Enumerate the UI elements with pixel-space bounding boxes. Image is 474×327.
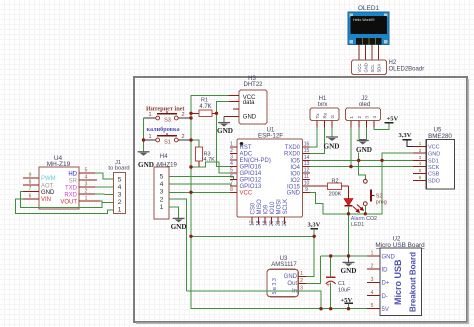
svg-text:GND: GND	[217, 127, 233, 135]
svg-text:RST: RST	[240, 145, 252, 151]
junction VCC rail / 3.3V rail corner	[189, 235, 192, 238]
component H3 DHT22	[224, 76, 267, 124]
svg-text:1: 1	[118, 206, 122, 213]
svg-text:H4: H4	[160, 154, 168, 160]
svg-text:1: 1	[148, 112, 151, 118]
svg-text:3,3V: 3,3V	[399, 132, 412, 139]
svg-text:Micro USB: Micro USB	[393, 259, 403, 305]
svg-text:+5V: +5V	[387, 116, 399, 123]
svg-text:8: 8	[230, 187, 233, 193]
ground under J2	[356, 140, 372, 161]
svg-text:2: 2	[230, 148, 233, 154]
svg-text:18: 18	[256, 220, 262, 226]
wire ESP GND pin9 staircase to LED net	[310, 192, 349, 214]
svg-text:SDO: SDO	[428, 179, 441, 185]
svg-text:1: 1	[148, 134, 151, 140]
junction J2 gnd stem / IO5 row / S2 hook	[357, 159, 360, 162]
svg-text:C1: C1	[338, 281, 345, 287]
wires U4 to J1	[15, 173, 113, 214]
svg-text:19: 19	[262, 220, 268, 226]
regulator U3 AMS1117	[267, 256, 306, 297]
svg-text:7: 7	[29, 186, 32, 192]
wire H1.Rx to ESP RXD0	[310, 128, 325, 154]
svg-text:SDA: SDA	[376, 64, 381, 73]
board border frame	[134, 77, 468, 323]
svg-text:2: 2	[300, 278, 303, 284]
wire H3.data to ESP GPIO16	[217, 101, 238, 166]
svg-text:ID: ID	[382, 268, 389, 274]
svg-text:5: 5	[118, 176, 122, 183]
svg-text:to board: to board	[108, 166, 129, 172]
svg-text:5V: 5V	[382, 307, 389, 313]
svg-text:G: G	[330, 115, 335, 119]
svg-text:GND: GND	[341, 267, 357, 275]
svg-text:GND: GND	[138, 161, 154, 169]
svg-text:4: 4	[118, 184, 122, 191]
svg-text:7: 7	[230, 181, 233, 187]
junction GND rail / C1 top	[329, 254, 332, 257]
svg-text:AMS1117: AMS1117	[271, 262, 297, 268]
GND rail to U2 pin1	[321, 255, 380, 257]
ground under H1	[324, 128, 340, 151]
wire J2.2 J2.3 to ground	[359, 128, 367, 140]
svg-text:GND: GND	[243, 115, 257, 121]
svg-text:PWM: PWM	[41, 176, 56, 182]
junction VCC rail / R3 bottom row	[189, 165, 192, 168]
svg-text:CSB: CSB	[428, 172, 440, 178]
svg-text:1: 1	[371, 251, 374, 257]
svg-text:SCLK: SCLK	[283, 199, 289, 215]
svg-text:2: 2	[371, 264, 374, 270]
wire ESP IO5 row to U5.SD1 with branch up to U5.GND	[310, 153, 413, 160]
svg-text:16: 16	[304, 142, 310, 148]
svg-text:9: 9	[29, 172, 32, 178]
wire H1.Tx to ESP TXD0	[310, 128, 317, 148]
svg-text:5: 5	[230, 168, 233, 174]
svg-text:3,3V: 3,3V	[308, 222, 321, 229]
svg-text:5 в 3.3: 5 в 3.3	[272, 278, 278, 294]
svg-text:2: 2	[181, 112, 184, 118]
svg-text:OLED2Boadr: OLED2Boadr	[389, 67, 425, 73]
svg-text:10uF: 10uF	[338, 287, 351, 293]
resistor R1 4.7K	[191, 98, 217, 117]
sensor U5 BME280	[413, 128, 455, 190]
svg-text:Интернет inet: Интернет inet	[146, 105, 185, 112]
svg-text:VIN: VIN	[41, 197, 51, 203]
svg-text:EN(CH-PD): EN(CH-PD)	[240, 158, 271, 164]
svg-text:IO2: IO2	[290, 178, 300, 184]
svg-text:GPIO12: GPIO12	[240, 178, 262, 184]
power flag 3,3V at ESP bottom	[308, 222, 321, 237]
wire VCC rail vertical (net from H3.VCC past R1/S-switches to ESP VCC)	[191, 95, 367, 308]
wire OLED1 pins to H2	[359, 45, 379, 61]
svg-text:VCC: VCC	[428, 145, 440, 151]
svg-text:TXD0: TXD0	[285, 145, 301, 151]
svg-text:R1: R1	[201, 98, 208, 104]
svg-text:DHT22: DHT22	[243, 82, 263, 88]
svg-text:2: 2	[160, 196, 164, 203]
svg-text:3: 3	[419, 155, 422, 160]
junction 5V rail / +5V flag	[347, 307, 350, 310]
svg-text:oled: oled	[359, 102, 370, 108]
module U2 Micro USB Board	[367, 237, 425, 316]
svg-text:txrx: txrx	[318, 102, 328, 108]
resistor R2 200K	[310, 179, 349, 198]
junction S1 pin2 / R3 top	[189, 138, 192, 141]
junction 5V rail / U3 In branch	[319, 307, 322, 310]
junction IO5 row / U5 branch	[380, 159, 383, 162]
svg-text:prog: prog	[376, 199, 387, 205]
svg-text:Tx: Tx	[315, 113, 320, 119]
svg-text:3: 3	[371, 277, 374, 283]
svg-text:13: 13	[304, 161, 310, 167]
svg-text:VCC: VCC	[240, 191, 253, 197]
svg-text:4: 4	[160, 181, 164, 188]
ground under H4	[171, 218, 187, 230]
wire 3.3V down to U3 pin1	[306, 236, 314, 276]
svg-text:IO0: IO0	[290, 171, 300, 177]
svg-text:VOUT: VOUT	[60, 199, 77, 205]
wire H4.4 to ESP GPIO13	[169, 184, 237, 186]
svg-text:6: 6	[29, 193, 32, 199]
wire H4.5 to ESP GPIO12	[169, 176, 237, 179]
svg-text:IO9: IO9	[264, 204, 270, 214]
svg-text:200K: 200K	[329, 192, 342, 198]
svg-text:GPIO16: GPIO16	[240, 165, 262, 171]
wire U3.In row / 5V rail from H4.2	[187, 291, 322, 309]
junction S3 pin2 / VCC rail	[189, 116, 192, 119]
connector J2 oled	[346, 96, 381, 127]
svg-text:5: 5	[160, 173, 164, 180]
svg-text:1: 1	[160, 204, 164, 211]
svg-text:1: 1	[300, 271, 303, 277]
switch S3	[144, 111, 192, 124]
svg-text:+: +	[326, 283, 330, 289]
svg-text:калибровка: калибровка	[147, 126, 180, 133]
svg-text:10: 10	[304, 181, 310, 187]
wire H4.1 to ground	[169, 207, 179, 218]
svg-text:5: 5	[85, 168, 88, 174]
svg-text:5: 5	[419, 168, 422, 173]
wire ESP IO4 row to U5.SCK	[310, 166, 413, 168]
svg-text:LED1: LED1	[351, 222, 364, 228]
resistor R3 4.7K	[191, 140, 215, 167]
svg-text:D-: D-	[382, 294, 388, 300]
wire LED cathode down to GND rail	[348, 206, 350, 256]
svg-text:GND: GND	[324, 143, 340, 151]
connector H1 txrx	[310, 96, 339, 127]
svg-text:4: 4	[419, 161, 422, 166]
switch S2 prog	[359, 160, 387, 213]
svg-text:OLED1: OLED1	[358, 5, 380, 12]
junction R1 right / data line	[215, 112, 218, 115]
power flag +5V bottom	[341, 297, 354, 309]
svg-text:IO10: IO10	[270, 201, 276, 215]
junction R1 left / VCC rail	[189, 112, 192, 115]
svg-text:4: 4	[85, 175, 88, 181]
wire U3.Out up to GND rail corner	[306, 256, 321, 284]
svg-text:3: 3	[160, 189, 164, 196]
svg-text:D+: D+	[382, 281, 390, 287]
junction 5V rail / C1 bottom	[329, 307, 332, 310]
svg-text:GND: GND	[287, 191, 301, 197]
svg-text:MISO: MISO	[257, 199, 263, 215]
junction VCC rail / ESP VCC row	[189, 191, 192, 194]
wire J2.1 to ESP IO4	[350, 128, 352, 167]
svg-text:Out: Out	[287, 281, 297, 287]
svg-text:Breakout Board: Breakout Board	[409, 252, 418, 312]
svg-text:11: 11	[304, 174, 309, 180]
svg-text:9: 9	[305, 187, 308, 193]
svg-text:SCL: SCL	[370, 64, 375, 73]
wire H4.2 down to 5V rail	[169, 199, 187, 291]
svg-text:MOSI: MOSI	[277, 199, 283, 215]
wire 3.3V rail left and down to bottom rail	[191, 235, 314, 237]
junction LED cathode / S2 row	[347, 212, 350, 215]
svg-text:15: 15	[304, 148, 310, 154]
svg-text:2: 2	[85, 189, 88, 195]
svg-text:6: 6	[230, 174, 233, 180]
wire J2.4 to +5V	[374, 123, 389, 130]
svg-text:3: 3	[230, 155, 233, 161]
svg-text:CS0: CS0	[251, 202, 257, 214]
svg-text:1: 1	[85, 196, 88, 202]
LED1 Alarm CO2	[344, 186, 377, 228]
svg-text:GND: GND	[284, 274, 298, 280]
junction GND rail / LED net	[347, 254, 350, 257]
svg-text:AOT: AOT	[41, 183, 54, 189]
svg-text:SCK: SCK	[428, 165, 440, 171]
svg-text:4: 4	[230, 161, 233, 167]
svg-text:3: 3	[118, 191, 122, 198]
junction 3.3V flag / rail	[313, 235, 316, 238]
svg-text:22: 22	[282, 220, 288, 226]
junction J2 pin1 / IO4 row	[349, 165, 352, 168]
svg-text:4.7K: 4.7K	[199, 104, 211, 110]
svg-text:GND: GND	[41, 190, 55, 196]
wire IO5 net down to S2 bottom rail	[349, 160, 383, 213]
switch S1	[144, 133, 192, 146]
svg-text:HD: HD	[68, 171, 77, 177]
svg-text:Hello World!!!: Hello World!!!	[353, 18, 375, 22]
svg-text:1: 1	[419, 141, 422, 146]
power flag +5V	[385, 116, 399, 123]
svg-text:2: 2	[181, 134, 184, 140]
power flag 3,3V at U5	[399, 132, 414, 146]
svg-text:RXD: RXD	[64, 192, 77, 198]
svg-text:H2: H2	[389, 60, 397, 66]
ground for H3	[217, 117, 233, 135]
svg-text:GND: GND	[171, 223, 187, 231]
svg-text:8: 8	[29, 180, 32, 186]
connector H2 OLED2Boadr	[352, 60, 425, 75]
svg-text:Rx: Rx	[322, 112, 327, 118]
svg-text:GND: GND	[363, 63, 368, 72]
ground on GND rail	[341, 256, 357, 275]
svg-text:12: 12	[304, 168, 310, 174]
wire R3/S1 net to ESP GPIO14	[191, 162, 237, 173]
svg-text:S3: S3	[164, 118, 171, 124]
svg-text:1: 1	[230, 142, 233, 148]
svg-text:GPIO13: GPIO13	[240, 184, 262, 190]
connector J1 to board	[108, 160, 130, 214]
svg-text:IO5: IO5	[290, 159, 300, 165]
svg-text:IO15: IO15	[287, 184, 301, 190]
svg-text:GND: GND	[428, 151, 440, 157]
svg-text:2: 2	[118, 199, 122, 206]
OLED1 module	[348, 5, 389, 45]
svg-text:20: 20	[269, 220, 275, 226]
connector H4 MHZ19	[154, 154, 177, 219]
svg-text:VCC: VCC	[357, 64, 362, 73]
svg-text:4: 4	[371, 290, 374, 296]
svg-text:Alarm CO2: Alarm CO2	[351, 216, 377, 222]
svg-text:S1: S1	[164, 140, 171, 146]
ground left	[138, 152, 154, 169]
svg-text:SD1: SD1	[428, 159, 439, 165]
svg-text:14: 14	[304, 155, 310, 161]
component U4 MH-Z19	[23, 155, 100, 209]
junction S2 bottom / row	[364, 212, 367, 215]
svg-text:5: 5	[371, 303, 374, 309]
IC U1 ESP-12F	[230, 127, 310, 226]
junction S1 pin1 / ground leg	[142, 138, 145, 141]
svg-text:IO4: IO4	[290, 165, 300, 171]
svg-text:data: data	[243, 100, 255, 106]
capacitor C1 10uF	[326, 256, 351, 309]
svg-text:SR: SR	[69, 178, 78, 184]
svg-text:GPIO14: GPIO14	[240, 171, 262, 177]
svg-text:ADC: ADC	[240, 152, 253, 158]
svg-text:TXD: TXD	[65, 185, 78, 191]
svg-text:21: 21	[275, 220, 281, 226]
svg-text:17: 17	[249, 220, 255, 226]
svg-text:3: 3	[85, 182, 88, 188]
wire H4.3 to ESP VCC	[169, 191, 230, 193]
svg-text:2: 2	[419, 148, 422, 153]
wire switches left leg down	[143, 118, 145, 152]
svg-text:ESP-12F: ESP-12F	[258, 132, 283, 139]
svg-text:RXD0: RXD0	[284, 152, 301, 158]
svg-text:6: 6	[419, 175, 422, 180]
